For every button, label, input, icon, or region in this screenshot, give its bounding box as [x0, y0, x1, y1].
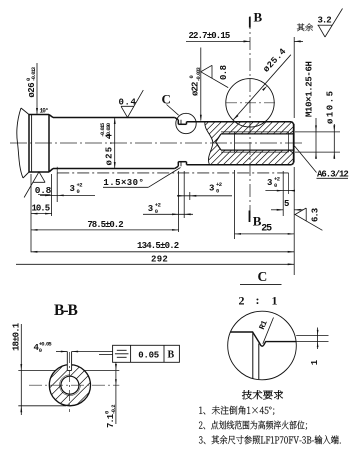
svg-text:0.05: 0.05	[138, 350, 159, 360]
svg-text:C: C	[162, 92, 171, 107]
svg-text:M10×1.25-6H: M10×1.25-6H	[305, 61, 315, 117]
svg-text:25: 25	[261, 223, 272, 234]
svg-text:B: B	[168, 350, 175, 361]
svg-text:5: 5	[284, 199, 289, 209]
svg-text:3: 3	[70, 184, 75, 194]
svg-text:3: 3	[148, 204, 153, 214]
svg-text:0: 0	[188, 76, 195, 79]
svg-text:22.7±0.15: 22.7±0.15	[189, 31, 230, 41]
svg-text:18±0.1: 18±0.1	[11, 322, 21, 351]
svg-text:0: 0	[155, 208, 158, 215]
svg-text:ø26: ø26	[27, 83, 37, 98]
svg-text:ø25.4: ø25.4	[261, 46, 288, 74]
svg-text:C: C	[258, 269, 268, 284]
svg-text:ø10.5: ø10.5	[326, 89, 336, 124]
svg-text:6.3: 6.3	[311, 208, 321, 222]
svg-text:-0.2: -0.2	[110, 405, 117, 415]
svg-text:-0.013: -0.013	[30, 66, 37, 81]
svg-text:-0.030: -0.030	[105, 123, 112, 137]
svg-text:1: 1	[310, 359, 320, 365]
svg-text::: :	[256, 293, 260, 307]
svg-text:78.5±0.2: 78.5±0.2	[87, 220, 123, 230]
svg-text:3: 3	[209, 184, 214, 194]
svg-text:3.2: 3.2	[318, 16, 332, 26]
svg-text:0: 0	[77, 188, 80, 195]
svg-text:0: 0	[216, 188, 219, 195]
svg-text:A6.3/12: A6.3/12	[317, 170, 348, 180]
svg-text:ø22: ø22	[191, 82, 201, 96]
svg-text:2: 2	[239, 294, 245, 308]
svg-text:0: 0	[274, 182, 277, 189]
svg-text:134.5±0.2: 134.5±0.2	[137, 241, 179, 251]
svg-text:1.5×30°: 1.5×30°	[103, 178, 144, 188]
svg-text:3: 3	[267, 178, 272, 188]
svg-text:0.4: 0.4	[119, 98, 137, 108]
svg-text:B: B	[254, 9, 263, 24]
svg-text:R1: R1	[258, 319, 270, 331]
svg-text:10.5: 10.5	[32, 204, 50, 214]
svg-text:292: 292	[151, 255, 168, 265]
svg-text:0: 0	[39, 347, 42, 354]
svg-text:B-B: B-B	[54, 302, 78, 319]
svg-text:1: 1	[272, 294, 278, 308]
svg-text:10°: 10°	[40, 108, 49, 115]
svg-text:0.8: 0.8	[219, 65, 229, 80]
